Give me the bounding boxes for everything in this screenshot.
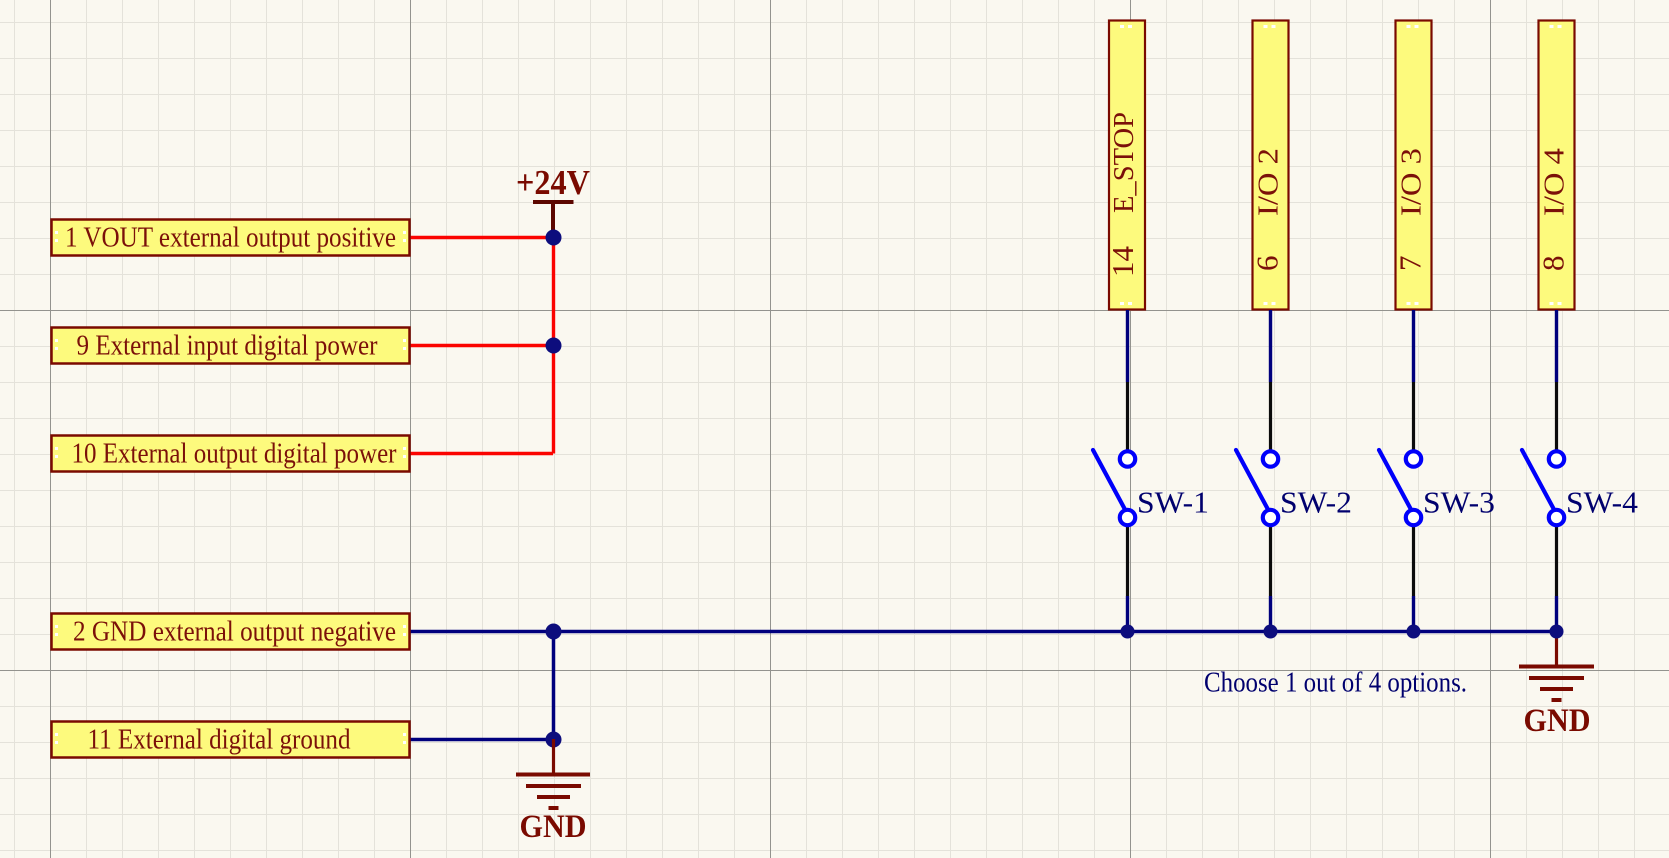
svg-text:9 External input digital power: 9 External input digital power — [77, 331, 378, 362]
svg-text:2 GND external output negative: 2 GND external output negative — [73, 617, 396, 648]
node junction SW-1/bus — [1121, 625, 1135, 639]
svg-text:8: 8 — [1536, 256, 1571, 272]
pin SW-1 bottom (black) — [1126, 526, 1129, 596]
wire pin10 to trunk (red) — [410, 452, 553, 455]
wire port7 to SW-3 (navy upper) — [1412, 310, 1415, 382]
wire SW-3 to bus (navy lower) — [1412, 596, 1415, 631]
node junction at +24V/VOUT — [546, 230, 562, 246]
label box 9 External input digital power — [52, 328, 410, 364]
node junction bus/left ground — [546, 624, 562, 640]
switch SW-3 — [1379, 450, 1495, 525]
switch SW-2 — [1236, 450, 1352, 525]
wire SW-1 to bus (navy lower) — [1126, 596, 1129, 631]
switch SW-1 — [1093, 450, 1209, 525]
port 14 E_STOP — [1105, 21, 1145, 310]
svg-text:Choose 1 out of 4 options.: Choose 1 out of 4 options. — [1204, 668, 1467, 699]
node junction at pin9 — [546, 338, 562, 354]
wire pin11 to ground vertical (navy) — [410, 738, 553, 742]
label box 11 External digital ground — [52, 722, 410, 758]
pin SW-2 top (black) — [1269, 382, 1272, 451]
pin SW-4 bottom (black) — [1555, 526, 1558, 596]
svg-text:GND: GND — [1524, 703, 1591, 739]
svg-text:GND: GND — [520, 809, 587, 845]
svg-text:I/O 2: I/O 2 — [1253, 148, 1285, 216]
wire SW-4 to bus (navy lower) — [1555, 596, 1558, 631]
svg-text:SW-3: SW-3 — [1423, 485, 1495, 520]
node junction SW-4/bus/GND — [1550, 625, 1564, 639]
svg-text:SW-2: SW-2 — [1280, 485, 1352, 520]
wire pin9 to trunk (red) — [410, 344, 553, 347]
pin SW-4 top (black) — [1555, 382, 1558, 451]
port 6 I/O 2 — [1250, 21, 1289, 310]
svg-text:10 External output digital pow: 10 External output digital power — [72, 439, 397, 470]
node junction SW-3/bus — [1407, 625, 1421, 639]
svg-text:SW-1: SW-1 — [1137, 485, 1209, 520]
pin SW-2 bottom (black) — [1269, 526, 1272, 596]
node junction pin11/left GND symbol — [546, 732, 562, 748]
label box 1 VOUT external output positive — [52, 220, 410, 256]
wire port6 to SW-2 (navy upper) — [1269, 310, 1272, 382]
wire port14 to SW-1 (navy upper) — [1126, 310, 1129, 382]
svg-text:I/O 3: I/O 3 — [1396, 148, 1428, 216]
wire SW-2 to bus (navy lower) — [1269, 596, 1272, 631]
label box 2 GND external output negative — [52, 614, 410, 650]
svg-text:1 VOUT external output positiv: 1 VOUT external output positive — [65, 223, 396, 254]
pin SW-1 top (black) — [1126, 382, 1129, 451]
svg-text:14: 14 — [1105, 246, 1140, 278]
switch SW-4 — [1522, 450, 1638, 525]
svg-text:I/O 4: I/O 4 — [1539, 147, 1571, 216]
wire GND bus horizontal (navy) — [410, 630, 1557, 634]
port 7 I/O 3 — [1393, 21, 1432, 310]
svg-text:SW-4: SW-4 — [1566, 485, 1638, 520]
power symbol +24V — [516, 163, 590, 237]
svg-text:E_STOP: E_STOP — [1108, 112, 1140, 213]
wire +24V vertical trunk (red) — [552, 237, 555, 454]
port 8 I/O 4 — [1536, 21, 1575, 310]
wire left ground vertical (navy) — [552, 631, 556, 740]
ground symbol GND right — [1519, 632, 1594, 739]
label box 10 External output digital power — [52, 436, 410, 472]
svg-text:+24V: +24V — [516, 163, 590, 202]
svg-text:6: 6 — [1250, 256, 1285, 272]
svg-text:7: 7 — [1393, 256, 1428, 272]
wire VOUT to +24V trunk (red) — [410, 236, 553, 239]
svg-text:11 External digital ground: 11 External digital ground — [88, 725, 351, 756]
wire port8 to SW-4 (navy upper) — [1555, 310, 1558, 382]
pin SW-3 top (black) — [1412, 382, 1415, 451]
node junction SW-2/bus — [1264, 625, 1278, 639]
ground symbol GND left — [516, 739, 590, 845]
pin SW-3 bottom (black) — [1412, 526, 1415, 596]
